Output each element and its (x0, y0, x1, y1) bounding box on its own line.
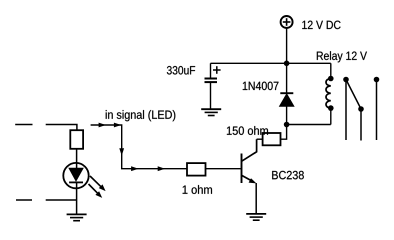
+12V top rail wire (211, 62, 331, 64)
LED D1 circle (63, 163, 88, 188)
label: 330uF (167, 66, 195, 75)
relay switch open contact (374, 77, 380, 83)
capacitor C1 plus sign (213, 66, 221, 74)
wire rail down to capacitor (210, 63, 212, 77)
signal arrowhead 4 (131, 166, 138, 171)
relay switch moving contact (358, 106, 364, 112)
ground (emitter) (246, 214, 266, 220)
signal flow wire with arrows (91, 125, 187, 169)
wire supply down (286, 28, 288, 63)
relay K1 coil (326, 79, 331, 109)
relay switch common terminal wire (345, 80, 347, 141)
ground (capacitor) (201, 109, 221, 115)
LED D1 cathode bar (69, 181, 83, 183)
relay switch armature blade (346, 80, 361, 110)
wire capacitor to ground (210, 82, 212, 109)
label: 1N4007 (243, 82, 279, 91)
diode D2 1N4007 cathode bar (280, 92, 293, 94)
node: +12V junction (284, 61, 290, 67)
signal arrowhead 1 (99, 123, 106, 128)
label: 150 ohm (227, 126, 268, 135)
LED light arrow 1 (90, 176, 106, 191)
node: coil bottom terminal (328, 105, 334, 111)
transistor Q1 collector diagonal (242, 139, 257, 161)
LED light arrow 2 (89, 184, 103, 198)
wire R2 to lower rail (281, 125, 287, 140)
resistor R1 1 ohm (187, 163, 206, 176)
relay switch middle terminal wire (360, 109, 362, 141)
node: diode/resistor/coil junction (284, 122, 290, 128)
transistor Q1 emitter diagonal with arrow (242, 175, 257, 183)
wire junction to diode (286, 63, 288, 93)
wire emitter to ground (255, 183, 257, 214)
ground (LED) (67, 214, 87, 220)
dashed input line bottom (external connection) (16, 199, 32, 201)
label: Relay 12 V (317, 51, 367, 62)
wire bottom input to LED cathode (46, 199, 77, 201)
wire resistor to LED (76, 149, 78, 169)
signal arrowhead 2 (114, 123, 121, 128)
lower rail wire to relay coil (287, 124, 331, 126)
wire rail to coil top (330, 63, 332, 78)
label: in signal (LED) (106, 110, 176, 121)
wire LED cathode down (76, 182, 78, 214)
node: coil top terminal (328, 76, 334, 82)
relay switch common contact (343, 77, 349, 83)
label: BC238 (272, 171, 304, 180)
transistor Q1 BC238 base bar (241, 154, 243, 184)
label: 1 ohm (183, 185, 212, 194)
LED D1 triangle (69, 168, 83, 181)
capacitor C1 plates (205, 79, 218, 83)
label: 12 V DC (302, 21, 340, 30)
wire top input to resistor (46, 125, 77, 131)
resistor (LED series) (70, 130, 83, 149)
dashed input line top (external connection) (15, 124, 32, 126)
signal arrowhead 5 (158, 166, 165, 171)
wire R1 to base (206, 168, 241, 170)
resistor R2 150 ohm (263, 133, 281, 145)
wire coil bottom to lower rail (330, 108, 332, 124)
signal arrowhead 3 (119, 148, 124, 155)
wire collector to R2 (257, 138, 263, 140)
wire diode to lower junction (286, 106, 288, 124)
diode D2 1N4007 triangle (280, 94, 294, 106)
relay switch right terminal wire (376, 80, 378, 141)
power source +12V circle (281, 16, 293, 28)
